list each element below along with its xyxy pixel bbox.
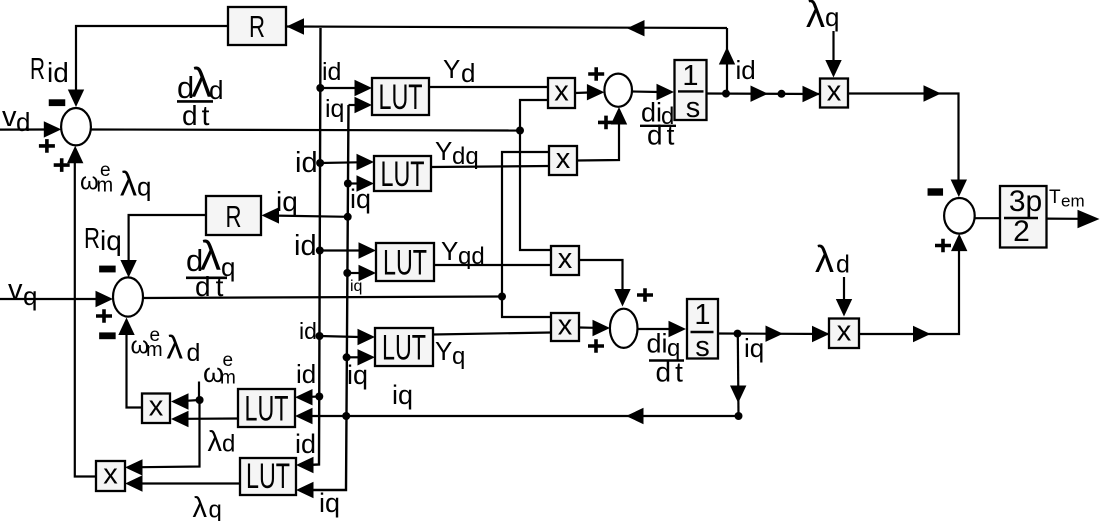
wire omega down to X6: [125, 400, 200, 476]
wire id tap LUT2: [316, 154, 374, 170]
sign plus S1 left: [39, 139, 55, 153]
svg-text:λ: λ: [806, 0, 825, 36]
label id LUT5: [296, 359, 316, 389]
label vd: [2, 101, 30, 137]
svg-text:Y: Y: [435, 336, 452, 366]
svg-text:dt: dt: [656, 357, 687, 388]
label omega_m^e standalone: [203, 350, 236, 389]
svg-text:id: id: [736, 55, 756, 85]
wire id tap LUT4: [316, 329, 376, 345]
wire Tem output: [1047, 210, 1100, 228]
wire iq tap LUT3: [343, 265, 376, 281]
svg-text:x: x: [827, 75, 842, 107]
label omega_m^e lambda_d: [131, 325, 201, 367]
multiplier X6: [96, 458, 125, 491]
wire X8 output to torque summer bottom: [859, 234, 967, 343]
multiplier X1: [548, 75, 575, 108]
svg-text:LUT: LUT: [246, 457, 290, 496]
wire q-flux-derivative dlambda_q/dt: [143, 297, 502, 299]
multiplier X5: [142, 391, 170, 423]
svg-text:λ: λ: [167, 329, 184, 366]
svg-text:s: s: [686, 92, 701, 124]
svg-text:x: x: [103, 458, 118, 490]
svg-text:dq: dq: [452, 143, 479, 170]
wire top id feedback: [286, 18, 727, 36]
multiplier X3: [551, 243, 579, 275]
wire riser dlambda_q/dt up to X2: [498, 152, 549, 301]
wire torque summer to gain: [974, 217, 1000, 219]
svg-text:LUT: LUT: [381, 155, 425, 194]
label dlambda_d/dt: [177, 59, 223, 131]
node dot integrator2 output: [734, 330, 742, 338]
svg-text:x: x: [558, 309, 573, 341]
summer S1 vd (ellipse): [61, 108, 91, 145]
svg-text:λ: λ: [193, 492, 208, 521]
svg-text:q: q: [23, 281, 37, 311]
wire X6 output to vd summer bottom: [67, 146, 96, 477]
label diq/dt: [647, 329, 687, 388]
label Yq: [435, 336, 465, 370]
wire X5 output to vq summer bottom: [118, 318, 142, 408]
svg-text:q: q: [209, 497, 222, 521]
summer S3 d-axis (circle): [604, 74, 632, 107]
svg-text:iq: iq: [276, 186, 298, 217]
label iq R2: [276, 186, 298, 217]
wire X7 output to torque summer: [848, 85, 967, 197]
label did/dt: [640, 98, 678, 151]
node dot before X7: [778, 90, 786, 98]
label id LUT3: [294, 230, 317, 262]
svg-text:LUT: LUT: [383, 244, 427, 283]
wire vd input: [0, 121, 61, 137]
wire q summer to integrator2: [638, 321, 687, 337]
node iq bus: [312, 105, 349, 490]
wire id riser: [719, 28, 735, 94]
label iq top bus: [325, 95, 344, 123]
wire integrator2 output: [718, 326, 830, 343]
wire iq top into LUT1: [349, 97, 373, 113]
svg-text:R: R: [84, 223, 100, 255]
multiplier X4: [551, 309, 579, 341]
svg-text:dt: dt: [182, 100, 213, 131]
node dot omega junction: [196, 396, 204, 404]
wire X3 output to q summer top: [579, 260, 631, 307]
svg-text:x: x: [554, 75, 569, 107]
sign plus S3 bottom: [598, 116, 614, 130]
wire X4 output to q summer: [580, 320, 610, 336]
resistor block R2: [206, 196, 261, 235]
svg-text:T: T: [1049, 187, 1061, 208]
node dot integrator1 output: [722, 90, 730, 98]
wire X2 output to d summer bottom: [577, 107, 627, 161]
gain block 3p/2: [1000, 185, 1047, 248]
wire integrator1 output: [706, 86, 820, 103]
wire riser dlambda_d/dt down to X3: [516, 127, 551, 251]
wire iq tap LUT4: [343, 349, 375, 365]
wire riser dlambda_q/dt down to X4: [502, 297, 551, 318]
label iq LUT6: [319, 488, 340, 518]
integrator block 1/s q-axis: [687, 299, 718, 363]
sign plus S2 left: [96, 309, 112, 323]
label vq: [8, 274, 37, 311]
label iq LUT4: [347, 360, 368, 390]
wire Yq LUT4 to X4: [433, 333, 551, 335]
label id integrator1: [736, 55, 756, 85]
svg-text:dt: dt: [195, 271, 228, 302]
svg-text:id: id: [295, 429, 316, 459]
svg-text:λ: λ: [208, 426, 223, 458]
svg-text:λ: λ: [120, 166, 137, 204]
svg-text:R: R: [226, 199, 242, 234]
LUT5 block lambda_d: [238, 389, 295, 429]
wire id tap LUT1: [316, 80, 372, 96]
sign minus S2 bottom: [99, 332, 116, 339]
svg-text:id: id: [322, 58, 341, 86]
svg-text:iq: iq: [325, 95, 344, 123]
svg-text:iq: iq: [100, 225, 122, 256]
label Riq: [84, 223, 122, 256]
wire iq tap LUT2: [344, 175, 374, 191]
svg-text:R: R: [30, 51, 45, 86]
sign plus S1 bottom: [54, 158, 70, 172]
svg-text:d: d: [187, 339, 201, 367]
svg-text:Y: Y: [443, 54, 460, 84]
multiplier X2: [549, 143, 577, 175]
svg-text:v: v: [2, 101, 17, 133]
wire d summer to integrator1: [632, 84, 674, 100]
label Yqd: [441, 236, 485, 270]
svg-text:d: d: [461, 58, 475, 88]
svg-text:LUT: LUT: [382, 329, 426, 368]
resistor block R1: [228, 7, 286, 45]
LUT1 block Yd: [372, 78, 429, 117]
label iq LUT2: [350, 184, 371, 214]
svg-text:iq: iq: [347, 360, 368, 390]
svg-text:LUT: LUT: [379, 78, 423, 117]
label id LUT6: [295, 429, 316, 459]
multiplier X8: [829, 316, 859, 348]
sign minus S5 top: [928, 188, 944, 195]
wire X1 output to d summer: [575, 84, 604, 100]
label Yd: [443, 54, 475, 88]
sign plus S4 left: [588, 339, 604, 353]
label id LUT2: [295, 147, 318, 179]
svg-text:d: d: [222, 431, 235, 458]
svg-text:iq: iq: [392, 380, 413, 410]
wire vq input: [0, 291, 113, 307]
label lambda_q input: [806, 0, 839, 36]
label lambda_d input: [815, 239, 850, 281]
svg-text:iq: iq: [350, 278, 362, 295]
svg-text:Y: Y: [441, 236, 458, 266]
label iq feedback: [392, 380, 413, 410]
LUT4 block Yq: [375, 328, 433, 368]
svg-text:q: q: [137, 172, 151, 202]
wire LUT5 output lambda_d: [171, 411, 238, 427]
label Tem: [1049, 187, 1085, 211]
label lambda_d LUT5: [208, 426, 236, 458]
svg-text:3p: 3p: [1009, 185, 1042, 218]
label iq LUT3 small: [350, 278, 362, 295]
node id bus: [312, 28, 321, 465]
svg-text:R: R: [249, 9, 265, 44]
svg-text:d: d: [836, 251, 850, 279]
wire Ydq LUT2 to X2: [431, 166, 549, 167]
sign minus S2 top: [99, 266, 116, 273]
label iq integrator2: [744, 333, 764, 363]
sign plus S4 top: [637, 288, 653, 302]
svg-text:id: id: [295, 147, 318, 179]
wire omega stub: [198, 382, 200, 401]
sign plus S5 bottom: [935, 239, 951, 253]
wire iq feedback drop: [730, 334, 746, 416]
svg-text:Y: Y: [435, 136, 452, 166]
wire id bus bottom into LUT6: [296, 457, 314, 473]
wire id tap LUT5: [295, 389, 323, 405]
wire d-flux-derivative dlambda_d/dt: [91, 130, 520, 131]
wire iq tap to R2: [262, 207, 352, 223]
svg-text:d: d: [16, 107, 30, 137]
integrator block 1/s d-axis: [675, 60, 707, 124]
svg-text:iq: iq: [350, 184, 371, 214]
svg-text:dt: dt: [647, 120, 678, 151]
LUT3 block Yqd: [376, 243, 434, 283]
wire R2 output to vq summer: [120, 215, 206, 278]
svg-text:e: e: [150, 325, 161, 346]
svg-text:1: 1: [682, 60, 698, 92]
svg-text:q: q: [452, 343, 465, 370]
label omega_m^e lambda_q: [80, 160, 151, 204]
svg-text:v: v: [8, 274, 23, 306]
svg-text:id: id: [299, 318, 317, 344]
wire iq bus bottom into LUT6: [296, 482, 314, 498]
svg-text:x: x: [837, 316, 852, 348]
wire LUT6 output lambda_q: [125, 475, 240, 491]
svg-text:x: x: [556, 143, 571, 175]
multiplier X7: [820, 75, 848, 107]
svg-text:em: em: [1061, 192, 1085, 211]
label Rid: [30, 51, 69, 88]
svg-text:2: 2: [1013, 215, 1030, 248]
LUT2 block Ydq: [374, 155, 431, 194]
summer S5 torque (circle): [944, 198, 975, 234]
label id top bus: [322, 58, 341, 86]
wire lambda_q input: [825, 31, 841, 78]
svg-text:id: id: [294, 230, 317, 262]
wire omega to X5: [171, 393, 200, 409]
svg-text:λ: λ: [815, 239, 834, 281]
wire iq feedback run: [295, 408, 739, 424]
svg-text:q: q: [825, 2, 839, 32]
svg-text:e: e: [100, 160, 111, 181]
svg-text:x: x: [558, 243, 573, 275]
wire Yqd LUT3 to X3: [434, 264, 551, 266]
node dot iq feedback corner: [735, 412, 743, 420]
summer S2 vq (ellipse): [113, 277, 143, 316]
wire Yd LUT1 to X1: [429, 86, 548, 88]
svg-text:di: di: [647, 329, 668, 359]
LUT6 block lambda_q: [240, 457, 296, 496]
svg-text:LUT: LUT: [245, 390, 289, 429]
svg-text:id: id: [47, 57, 69, 88]
svg-text:s: s: [695, 331, 710, 363]
wire lambda_d input: [836, 277, 852, 317]
sign minus S1: [49, 99, 66, 106]
label id LUT4: [299, 318, 317, 344]
svg-text:1: 1: [694, 299, 710, 331]
wire R1 feedback to vd summer: [68, 26, 228, 107]
label Ydq: [435, 136, 479, 170]
svg-text:qd: qd: [458, 243, 485, 270]
wire riser dlambda_d/dt into X1: [520, 100, 548, 131]
wire id tap LUT3: [316, 242, 376, 258]
svg-text:iq: iq: [744, 333, 764, 363]
summer S4 q-axis (circle): [610, 309, 638, 348]
label dlambda_q/dt: [186, 232, 235, 302]
svg-text:id: id: [296, 359, 316, 389]
svg-text:e: e: [223, 350, 234, 371]
sign plus S3 top: [588, 67, 604, 81]
svg-text:iq: iq: [319, 488, 340, 518]
label lambda_q LUT6: [193, 492, 222, 521]
svg-text:x: x: [149, 391, 164, 423]
